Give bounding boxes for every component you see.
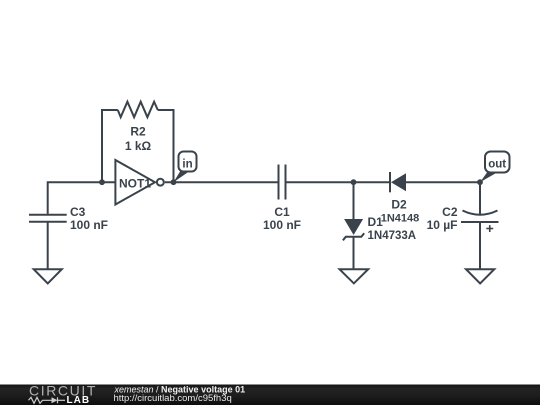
svg-text:1 kΩ: 1 kΩ [125,139,152,153]
svg-text:in: in [182,159,192,171]
svg-text:1N4733A: 1N4733A [368,230,417,242]
svg-text:10 µF: 10 µF [427,218,458,232]
svg-text:out: out [488,159,506,171]
svg-text:D1: D1 [368,215,384,229]
svg-text:C2: C2 [442,205,458,219]
svg-text:D2: D2 [391,197,407,211]
svg-text:NOT1: NOT1 [119,176,151,190]
svg-text:C3: C3 [70,205,86,219]
svg-text:C1: C1 [274,205,290,219]
svg-text:LAB: LAB [67,395,91,405]
svg-text:http://circuitlab.com/c95fh3q: http://circuitlab.com/c95fh3q [114,393,232,404]
svg-text:1N4148: 1N4148 [381,212,420,224]
svg-text:100 nF: 100 nF [70,218,108,232]
svg-text:100 nF: 100 nF [263,218,301,232]
svg-text:R2: R2 [130,125,146,139]
